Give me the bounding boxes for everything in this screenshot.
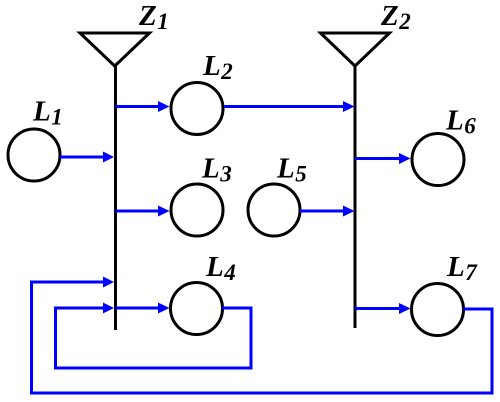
label Z2 <box>380 0 411 34</box>
antenna Z2 <box>321 33 390 66</box>
wire Z2 line to L7 <box>355 303 411 314</box>
node L4 <box>171 283 223 335</box>
antenna Z1 <box>80 33 150 66</box>
label L3 <box>201 153 232 187</box>
wire L5 to Z2 line <box>300 206 355 217</box>
node L2 <box>171 83 223 135</box>
wire L1 to Z1 line <box>60 152 114 163</box>
wire Z2 line to L6 <box>355 153 411 164</box>
label L6 <box>445 105 476 139</box>
wire Z1 line to L3 <box>116 206 170 217</box>
node L7 <box>412 284 464 336</box>
label L2 <box>202 50 233 84</box>
node L6 <box>412 134 464 186</box>
label L7 <box>446 251 478 285</box>
wire outer feedback loop L7 to Z1 line <box>32 277 493 394</box>
label L4 <box>205 251 236 285</box>
wire Z1 line to L4 <box>116 303 170 314</box>
wire Z1 line to L2 <box>116 101 170 112</box>
label L5 <box>276 153 307 187</box>
label L1 <box>32 96 63 130</box>
wire inner feedback loop L4 to Z1 line <box>56 303 252 369</box>
wire Z1 feed line <box>114 64 117 330</box>
label Z1 <box>138 0 169 34</box>
wire L2 to Z2 line <box>225 101 355 112</box>
wire Z2 feed line <box>354 64 357 328</box>
node L3 <box>171 184 223 236</box>
node L5 <box>248 184 300 236</box>
node L1 <box>8 129 60 181</box>
